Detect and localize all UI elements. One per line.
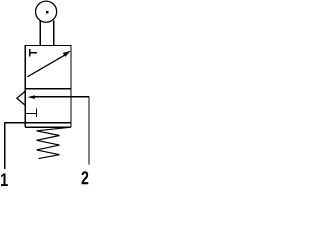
port 1 drop line bbox=[4, 123, 6, 169]
roller stem bbox=[40, 20, 54, 45]
spring seat rail bbox=[25, 126, 71, 128]
left vertical V1 (box left edge extension) bbox=[24, 89, 26, 128]
port label 1 bbox=[1, 173, 8, 186]
valve body box bbox=[25, 46, 71, 89]
port label 2 bbox=[82, 171, 89, 184]
right vertical V2 (box right edge extension) bbox=[70, 89, 72, 128]
roller wheel bbox=[36, 1, 57, 22]
blocked port T symbol (below box, on V1) bbox=[25, 108, 36, 117]
port 2 drop line bbox=[88, 97, 90, 165]
bottom rail B bbox=[5, 122, 71, 124]
pilot / port-2 horizontal line bbox=[34, 96, 89, 98]
return spring (zigzag) bbox=[37, 127, 71, 158]
adjustment arrow (diagonal, filled head) bbox=[27, 51, 70, 77]
valve schematic: roller-operated valve with spring return, ports 1 and 2 bbox=[0, 0, 93, 188]
chevron on port line (open arrow, left of vertical) bbox=[17, 91, 25, 105]
pilot arrowhead (filled, pointing left) bbox=[28, 95, 35, 99]
blocked port T symbol (inside box, top-left) bbox=[30, 49, 37, 57]
